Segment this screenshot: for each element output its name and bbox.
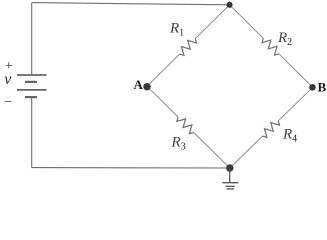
wire left upper (top corner down to battery + plate): [31, 3, 33, 75]
node top (junction dot): [226, 2, 232, 8]
battery v (two-cell source): [17, 75, 47, 97]
svg-text:B: B: [318, 80, 327, 95]
svg-text:A: A: [134, 77, 144, 92]
svg-text:−: −: [4, 95, 12, 110]
wire top (battery top to top node): [32, 3, 230, 5]
resistor R2 zigzag: [262, 38, 279, 55]
svg-text:R2: R2: [277, 30, 292, 48]
wire top node to R2: [230, 5, 264, 39]
svg-text:R4: R4: [282, 127, 297, 145]
wire bottom node to R4: [230, 136, 263, 168]
resistor R1 zigzag: [180, 39, 197, 56]
wire R4 to node B: [278, 87, 312, 121]
svg-text:R1: R1: [169, 21, 184, 39]
wire left lower (battery - plate down to bottom corner): [31, 97, 33, 168]
wire R2 to node B: [279, 54, 313, 88]
ground: [222, 168, 238, 189]
svg-text:R3: R3: [171, 135, 186, 153]
node A junction dot: [143, 83, 150, 90]
node B junction dot: [309, 84, 316, 91]
wire R3 to bottom node: [194, 132, 230, 168]
resistor R4 zigzag: [263, 121, 280, 138]
node bottom (junction dot): [226, 164, 233, 171]
wire bottom (bottom corner to bottom node): [32, 167, 230, 169]
wire node A to R1: [147, 54, 180, 86]
wire R1 to top node: [195, 5, 229, 39]
svg-text:v: v: [4, 71, 12, 88]
wire node A to R3: [147, 86, 178, 117]
resistor R3 zigzag: [177, 117, 194, 134]
